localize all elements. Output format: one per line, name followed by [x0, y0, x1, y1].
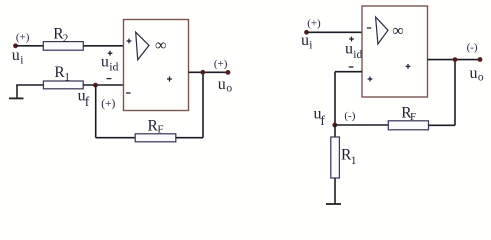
feedback junction dot (left): [200, 70, 205, 75]
feedback wire up to output (left): [202, 72, 204, 137]
feedback wire RF to output node (left): [176, 137, 203, 139]
label RF (left): [148, 118, 164, 136]
svg-text:(-): (-): [344, 110, 355, 122]
wire u_i to R2: [16, 45, 44, 47]
resistor RF (left): [135, 134, 176, 142]
op-amp U2 triangle: [376, 17, 388, 44]
svg-text:∞: ∞: [155, 37, 166, 54]
svg-text:1: 1: [64, 71, 70, 83]
resistor R2: [43, 42, 83, 51]
wire u_i to op-amp inverting input (right): [307, 31, 363, 33]
label u_i (left): [12, 47, 24, 67]
node u_o terminal dot (left): [226, 70, 231, 75]
svg-text:u: u: [345, 41, 353, 58]
op-amp U1 inverting - marker: [126, 92, 131, 94]
svg-text:u: u: [101, 53, 109, 70]
wire op-amp noninverting input to u_f node (right): [335, 71, 362, 73]
op-amp U1 noninverting + marker: [127, 39, 132, 44]
svg-text:(+): (+): [101, 98, 115, 110]
ground (right circuit): [326, 203, 341, 205]
svg-text:(-): (-): [467, 41, 478, 53]
svg-text:id: id: [353, 49, 362, 61]
svg-text:(+): (+): [214, 58, 228, 70]
svg-text:F: F: [157, 124, 163, 136]
label u_o (right): [470, 65, 484, 84]
svg-text:f: f: [320, 113, 325, 128]
svg-text:F: F: [410, 111, 416, 123]
svg-text:u: u: [470, 65, 478, 82]
feedback wire RF to output node (right): [429, 124, 456, 126]
op-amp U1 rectangle (left): [124, 20, 189, 111]
op-amp U1 output polarity + marker: [167, 77, 172, 82]
op-amp U2 output polarity + marker: [406, 64, 411, 69]
node u_f junction dot (right): [332, 123, 337, 128]
svg-text:(+): (+): [307, 18, 321, 30]
label u_i (right): [301, 32, 313, 51]
node u_i terminal dot (right circuit): [304, 30, 309, 35]
wire R1 to ground (right): [334, 178, 336, 204]
svg-text:(+): (+): [16, 32, 30, 44]
label u_id with + and - marks (left): [108, 51, 113, 56]
op-amp U2 inverting - marker: [367, 27, 371, 29]
wire ground to R1: [16, 84, 44, 86]
label R1 (right): [341, 147, 357, 167]
feedback wire to RF (left): [96, 137, 136, 139]
svg-text:u: u: [301, 32, 309, 49]
node u_f junction dot (left): [93, 83, 98, 88]
svg-text:f: f: [85, 94, 90, 109]
label u_id with + and - marks (right): [349, 37, 354, 42]
wire R2 to op-amp: [83, 45, 123, 47]
feedback wire up to output (right): [454, 60, 456, 126]
resistor R1 (left): [43, 81, 83, 89]
label u_o (left): [218, 76, 233, 94]
wire u_f node down to R1 (right): [334, 125, 336, 138]
output wire (right): [428, 59, 481, 61]
label RF (right): [401, 105, 416, 124]
op-amp U2 rectangle (right): [362, 6, 428, 97]
svg-text:2: 2: [63, 33, 69, 45]
op-amp U1 triangle: [136, 32, 149, 60]
svg-text:o: o: [226, 83, 232, 95]
svg-text:i: i: [309, 39, 312, 51]
svg-text:u: u: [218, 76, 226, 93]
svg-text:i: i: [20, 54, 23, 66]
svg-text:o: o: [478, 72, 484, 84]
label u_f (left): [78, 88, 90, 110]
ground (left circuit): [16, 85, 18, 98]
feedback wire down from u_f node (left): [95, 85, 97, 138]
wire down to u_f node (right): [334, 72, 336, 125]
feedback junction dot (right): [453, 57, 458, 62]
svg-text:1: 1: [351, 155, 357, 167]
node u_i terminal dot (left circuit): [13, 43, 18, 48]
svg-text:∞: ∞: [392, 23, 403, 40]
label R2: [53, 25, 68, 45]
label R1 (left): [54, 64, 70, 84]
label u_f (right): [314, 106, 326, 128]
wire u_f node to RF (right): [335, 124, 389, 126]
resistor RF (right): [388, 121, 428, 130]
resistor R1 (right, vertical): [331, 137, 340, 178]
wire R1 to op-amp inverting input: [83, 84, 123, 86]
node u_o terminal dot (right): [478, 57, 483, 62]
svg-text:u: u: [12, 47, 20, 64]
op-amp U2 noninverting + marker: [368, 77, 373, 82]
svg-text:id: id: [109, 60, 118, 74]
output wire (left): [189, 71, 229, 73]
